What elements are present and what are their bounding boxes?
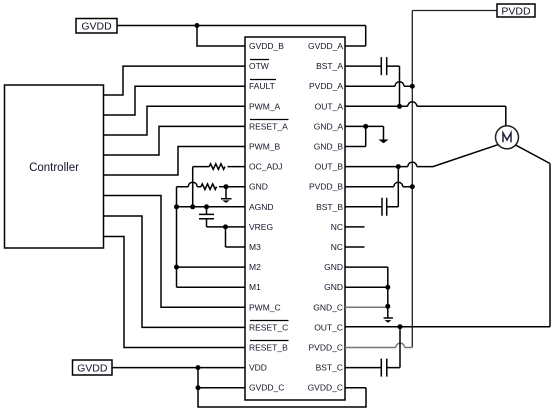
- svg-text:PVDD_A: PVDD_A: [309, 81, 343, 91]
- svg-text:PWM_C: PWM_C: [249, 302, 281, 312]
- svg-text:GVDD: GVDD: [81, 21, 112, 33]
- svg-text:PWM_B: PWM_B: [249, 142, 281, 152]
- svg-text:BST_B: BST_B: [316, 202, 343, 212]
- svg-text:GND: GND: [324, 262, 343, 272]
- svg-text:RESET_A: RESET_A: [249, 121, 288, 131]
- svg-text:OUT_B: OUT_B: [315, 162, 344, 172]
- svg-text:OTW: OTW: [249, 61, 269, 71]
- svg-text:Controller: Controller: [29, 162, 79, 174]
- svg-text:OUT_A: OUT_A: [315, 101, 344, 111]
- svg-text:RESET_C: RESET_C: [249, 322, 288, 332]
- svg-text:NC: NC: [331, 242, 343, 252]
- svg-text:BST_C: BST_C: [316, 363, 343, 373]
- svg-text:VREG: VREG: [249, 222, 273, 232]
- svg-text:AGND: AGND: [249, 202, 274, 212]
- svg-text:RESET_B: RESET_B: [249, 343, 288, 353]
- svg-text:GVDD_C: GVDD_C: [249, 383, 284, 393]
- svg-text:GND: GND: [249, 182, 268, 192]
- svg-text:GND_C: GND_C: [313, 302, 343, 312]
- svg-text:VDD: VDD: [249, 363, 267, 373]
- svg-text:PVDD: PVDD: [501, 5, 531, 17]
- svg-text:M3: M3: [249, 242, 261, 252]
- svg-text:GVDD_A: GVDD_A: [308, 41, 343, 51]
- svg-text:NC: NC: [331, 222, 343, 232]
- svg-text:GVDD: GVDD: [77, 362, 108, 374]
- svg-text:PVDD_B: PVDD_B: [309, 182, 343, 192]
- svg-text:GND_A: GND_A: [314, 121, 344, 131]
- svg-text:M2: M2: [249, 262, 261, 272]
- svg-text:OUT_C: OUT_C: [314, 322, 343, 332]
- svg-text:PWM_A: PWM_A: [249, 101, 281, 111]
- svg-text:GVDD_B: GVDD_B: [249, 41, 284, 51]
- svg-text:PVDD_C: PVDD_C: [309, 343, 343, 353]
- svg-text:GVDD_C: GVDD_C: [308, 383, 343, 393]
- svg-text:FAULT: FAULT: [249, 81, 275, 91]
- svg-text:M1: M1: [249, 282, 261, 292]
- svg-text:GND_B: GND_B: [314, 142, 344, 152]
- svg-text:GND: GND: [324, 282, 343, 292]
- svg-text:OC_ADJ: OC_ADJ: [249, 162, 283, 172]
- svg-text:BST_A: BST_A: [316, 61, 343, 71]
